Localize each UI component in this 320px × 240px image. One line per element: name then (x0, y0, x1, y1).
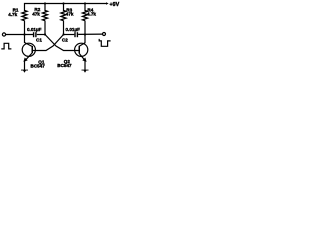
wire R1 bottom to collector node (24, 21, 26, 43)
capacitor C2 (74, 32, 76, 37)
wire left output to C1 (6, 34, 33, 36)
transistor Q1 (22, 43, 35, 62)
wire C1 to R2 node (37, 34, 45, 36)
transistor Q2 (75, 43, 88, 62)
svg-text:C2: C2 (62, 38, 68, 43)
wire Q1 emitter down (24, 61, 26, 71)
wire top supply rail (25, 4, 107, 12)
svg-text:C1: C1 (36, 37, 42, 42)
node C1-R2 junction (44, 33, 46, 35)
ground arrow left (21, 70, 28, 73)
wire R4 branch top (84, 4, 86, 12)
waveform icon right (99, 39, 110, 46)
svg-text:0.01µF: 0.01µF (27, 27, 42, 32)
capacitor C1 (33, 32, 35, 37)
svg-text:47k: 47k (32, 12, 40, 17)
wire R3 bottom (63, 21, 65, 35)
wire cross-couple C2 to Q1 base (32, 35, 64, 51)
wire cross-couple C1 to Q2 base (45, 35, 79, 51)
node R2 rail junction (44, 2, 46, 4)
resistor R3 (61, 11, 66, 21)
wire Q2 emitter down (84, 61, 86, 71)
wire R3 node to C2 (64, 34, 75, 36)
svg-text:47k: 47k (66, 12, 74, 17)
svg-text:BC547: BC547 (31, 63, 46, 68)
svg-text:+9V: +9V (110, 2, 120, 8)
svg-text:0.01µF: 0.01µF (66, 27, 81, 32)
node Q2 collector junction (84, 33, 86, 35)
terminal left output (2, 33, 5, 36)
svg-text:4.7k: 4.7k (87, 12, 96, 17)
+9V arrowhead (106, 2, 109, 4)
svg-text:BC547: BC547 (57, 63, 72, 68)
resistor R1 (22, 11, 27, 21)
terminal right output (103, 33, 106, 36)
waveform icon left (1, 43, 11, 49)
wire R3 branch top (63, 4, 65, 12)
node Q1 collector junction (23, 33, 25, 35)
ground arrow right (82, 70, 89, 73)
wire R4 bottom to collector node (84, 21, 86, 43)
node R4 rail junction (84, 2, 86, 4)
resistor R4 (83, 11, 88, 21)
node R3 rail junction (62, 2, 64, 4)
wire R2 bottom (44, 21, 46, 35)
svg-text:4.7k: 4.7k (8, 12, 17, 17)
wire R2 branch top (44, 4, 46, 12)
node R3-C2 junction (62, 33, 64, 35)
wire C2 to right terminal (78, 33, 102, 35)
resistor R2 (43, 11, 48, 21)
